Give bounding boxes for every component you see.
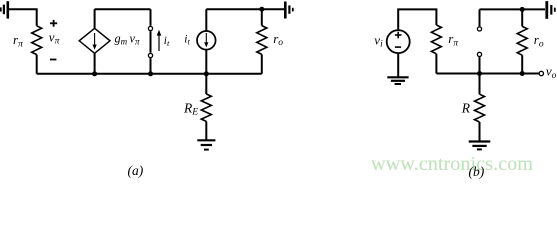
wire: r_pi(b) bottom to rail	[435, 54, 437, 74]
terminal circle port top (a)	[148, 26, 152, 30]
ground GND4 below v_i	[387, 77, 408, 84]
junction dot at diamond/rail	[92, 71, 97, 76]
voltage source v_i (circle)	[387, 30, 410, 53]
resistor r_o (b)	[517, 26, 527, 55]
ground GND5 top-right (b)	[547, 1, 555, 19]
arrow i_t (up, at port)	[157, 30, 162, 51]
wire: v_i bottom lead	[397, 54, 399, 77]
minus sign of v_pi (a)	[50, 59, 56, 61]
junction dot r_o top (b)	[520, 7, 525, 12]
plus sign of v_pi (a)	[50, 20, 57, 27]
wire: rail down to R	[479, 74, 481, 95]
resistor r_pi (b)	[431, 25, 441, 54]
resistor R_E	[201, 94, 211, 121]
wire: between port circles	[150, 31, 152, 53]
wire: port bottom to rail	[150, 58, 152, 74]
wire: rail down to R_E	[205, 74, 207, 94]
arrow inside diamond (down)	[93, 33, 97, 50]
wire: top rail diamond to port	[95, 8, 151, 10]
junction dot r_o bottom (b)	[520, 71, 525, 76]
terminal circle port bottom (b)	[477, 52, 481, 56]
wire: R bottom to ground	[479, 122, 481, 141]
junction dot r_o top (a)	[259, 7, 264, 12]
terminal circle port top (b)	[477, 27, 481, 31]
wire: r_pi bottom to rail	[36, 55, 38, 74]
wire: top wire port to GND5 (b)	[480, 8, 546, 10]
svg-text:www.cntronics.com: www.cntronics.com	[371, 153, 533, 175]
ground GND2 top-right (a)	[285, 2, 293, 19]
wire: r_o bottom to rail corner	[261, 54, 263, 73]
wire: port(b) top lead	[479, 9, 481, 26]
dependent source gmvpi diamond U1	[79, 28, 110, 53]
junction dot isource/rail	[204, 71, 209, 76]
ground GND3 below R_E	[197, 140, 215, 149]
wire: port branch top lead	[150, 9, 152, 26]
wire: r_o(b) top lead	[521, 9, 523, 26]
wire: diamond top lead	[94, 9, 96, 28]
wire: diamond bottom lead	[94, 53, 96, 74]
wire: bottom rail (a)	[37, 73, 262, 75]
wire: port(b) bottom lead to rail	[479, 57, 481, 73]
minus sign inside v_i	[395, 46, 401, 48]
current source i_t I1 (circle)	[197, 31, 216, 50]
resistor r_o (a)	[257, 26, 267, 55]
wire: R_E bottom to ground	[205, 121, 207, 139]
arrow inside current source (down)	[204, 33, 208, 47]
ground GND1 top-left (a)	[1, 1, 8, 18]
resistor r_pi (a)	[32, 26, 42, 55]
terminal circle v_o	[539, 71, 543, 75]
resistor R	[475, 94, 485, 122]
wire: r_o(b) bottom to rail	[521, 55, 523, 73]
wire: r_o top lead (a)	[261, 9, 263, 25]
svg-text:(a): (a)	[128, 163, 144, 178]
wire: v_i top lead and top wire to r_pi	[398, 9, 436, 29]
wire: isource bottom lead	[205, 50, 207, 74]
junction dot port/rail (b)	[477, 71, 482, 76]
terminal circle port bottom (a)	[148, 53, 152, 57]
plus sign inside v_i	[395, 32, 402, 39]
wire: bottom rail (b)	[436, 73, 538, 75]
svg-text:(b): (b)	[469, 164, 485, 179]
svg-text:R: R	[461, 101, 471, 116]
wire: isource top lead	[205, 9, 207, 30]
wire: GND1 to r_pi top	[9, 9, 37, 26]
ground GND6 below R	[469, 142, 491, 150]
wire: top rail isource to GND2	[206, 8, 284, 10]
junction dot at port/rail	[148, 71, 153, 76]
